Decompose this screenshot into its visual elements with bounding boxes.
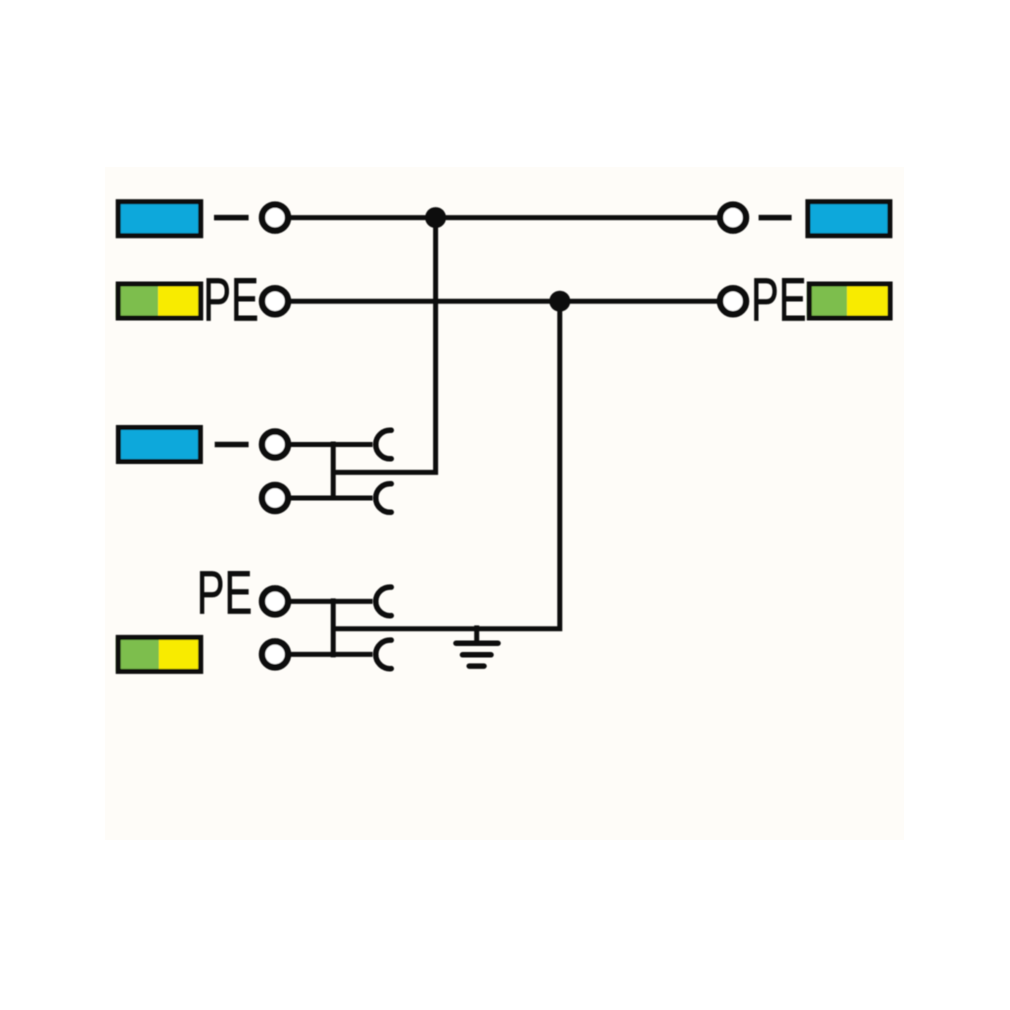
photo background [105, 167, 904, 840]
ground symbol [456, 625, 498, 666]
terminal circle group1 lower [262, 485, 288, 511]
wire row1 L1 bus [289, 215, 718, 220]
node 1 junction dot [425, 207, 446, 228]
terminal circle group2 upper [262, 588, 288, 614]
wire clamp group1 crossbar [331, 442, 336, 501]
clamp contact group1 upper [376, 430, 391, 459]
marker blue rect top-right [808, 202, 890, 236]
wire clamp group1 upper [289, 442, 373, 447]
schematic artwork [116, 202, 890, 672]
svg-text:PE: PE [751, 265, 807, 334]
ground bar 1 [456, 640, 498, 646]
marker green-yellow rect bottom [116, 637, 201, 671]
clamp contact group2 upper [376, 587, 391, 616]
ground bar 2 [463, 652, 492, 658]
ground bar 3 [469, 663, 484, 669]
marker green-yellow rect row2 left [116, 284, 201, 318]
terminal circle group2 lower [262, 641, 288, 667]
lead dash top-right [759, 215, 792, 221]
terminal circle row2 right [720, 288, 746, 314]
terminal circle group1 upper [262, 432, 288, 458]
terminal circle row1 left [262, 205, 288, 231]
wire clamp group1 lower [289, 496, 373, 501]
marker blue rect middle [118, 428, 200, 462]
terminal circle row2 left [262, 288, 288, 314]
wire clamp group2 lower [289, 652, 373, 657]
marker blue rect top-left [118, 202, 201, 236]
node 2 junction dot [549, 291, 570, 312]
lead dash middle [215, 442, 249, 448]
terminal circle row1 right [720, 205, 746, 231]
svg-text:PE: PE [203, 266, 259, 335]
clamp contact group1 lower [376, 484, 391, 513]
wire row2 PE bus [289, 299, 718, 304]
wire clamp group2 upper [289, 599, 373, 604]
clamp contact group2 lower [376, 640, 391, 669]
wire clamp group2 crossbar [331, 598, 336, 657]
marker green-yellow rect row2 right [807, 284, 890, 318]
wire vertical B from node2 to clamp group 2 [333, 301, 560, 629]
svg-text:PE: PE [197, 558, 253, 627]
wire vertical A from node1 to clamp group 1 [333, 218, 435, 473]
ground stem [474, 625, 479, 643]
lead dash top-left [214, 215, 249, 221]
